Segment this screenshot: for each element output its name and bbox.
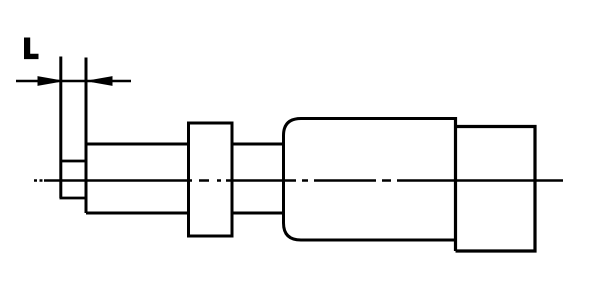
flange bbox=[189, 123, 233, 236]
extension line left / tip left edge bbox=[59, 57, 62, 199]
tip rectangle horizontals bbox=[60, 161, 88, 198]
label L bbox=[24, 38, 39, 60]
shaft 2 (neck) bbox=[232, 144, 284, 213]
end block bbox=[456, 127, 536, 252]
shaft 1 (left barrel) bbox=[86, 144, 189, 213]
extension line right / tip right edge / shaft left edge bbox=[85, 58, 88, 214]
arrowhead right (points left) bbox=[91, 76, 113, 86]
body (rounded-left barrel) bbox=[284, 119, 456, 241]
dimension line bbox=[16, 80, 131, 82]
arrowhead left (points right) bbox=[38, 76, 60, 86]
centerline (dash-dot axis) bbox=[34, 179, 563, 182]
body right edge / end block left edge bbox=[454, 117, 457, 251]
